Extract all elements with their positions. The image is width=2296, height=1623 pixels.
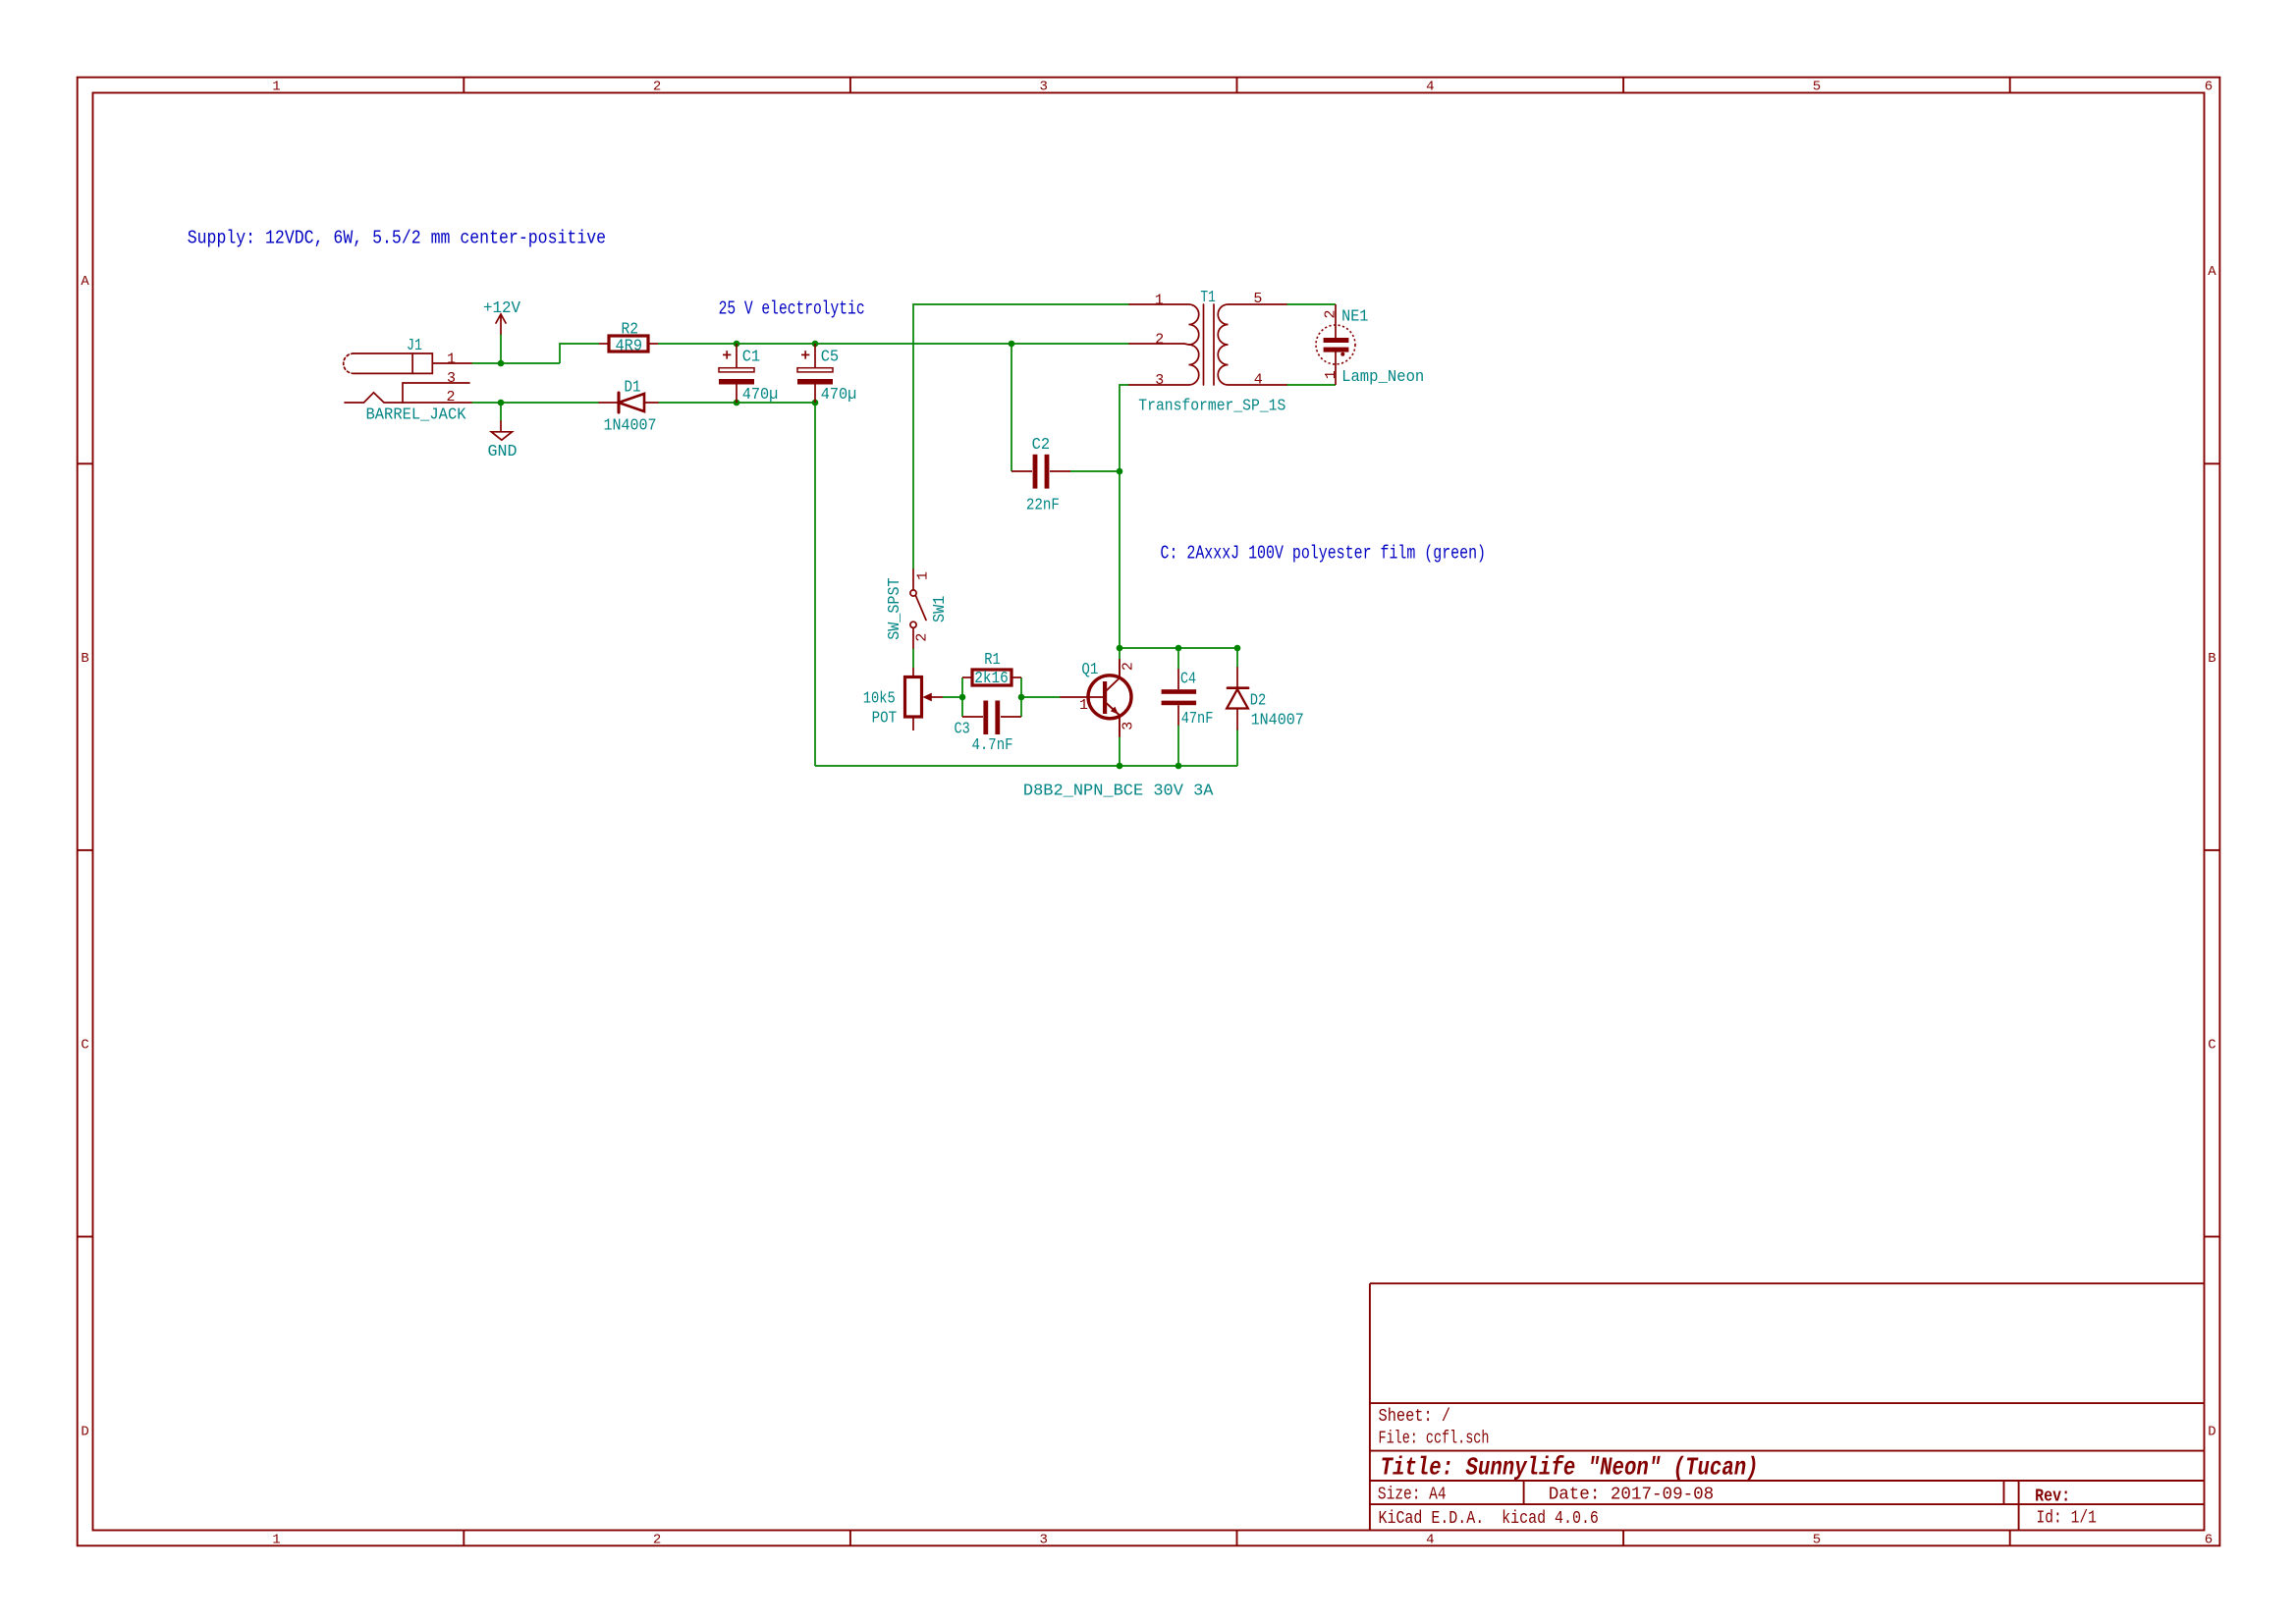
transformer T1 [1129,304,1286,385]
svg-text:D8B2_NPN_BCE 30V 3A: D8B2_NPN_BCE 30V 3A [1023,783,1214,801]
svg-text:Lamp_Neon: Lamp_Neon [1341,368,1424,387]
svg-text:22nF: 22nF [1026,497,1060,515]
wire T1 pin1 to switch column [913,304,1129,569]
svg-text:1: 1 [915,571,932,580]
wire C4 top [1177,648,1179,669]
wire R1C3 left leads [961,677,963,717]
wire T1 pin4 to lamp [1286,384,1336,386]
wire R1C3 right leads [1020,677,1022,717]
diode D1 [599,393,658,412]
svg-text:A: A [81,274,89,290]
svg-text:+12V: +12V [483,299,521,318]
junction C2 right [1117,468,1123,475]
svg-text:1N4007: 1N4007 [1251,712,1304,730]
svg-text:B: B [2208,651,2215,667]
svg-text:2: 2 [1155,331,1164,348]
junction base left [959,694,966,701]
svg-text:4: 4 [1426,1532,1434,1547]
svg-text:C1: C1 [742,348,761,366]
junction emitter rail [1117,763,1123,770]
junction D2 top node [1234,645,1241,652]
svg-text:C4: C4 [1180,671,1196,689]
svg-text:Title: Sunnylife "Neon" (Tucan: Title: Sunnylife "Neon" (Tucan) [1381,1453,1759,1483]
svg-text:3: 3 [447,370,456,387]
svg-text:D: D [81,1424,88,1439]
wire D2 top [1236,648,1238,668]
svg-text:3: 3 [1039,80,1047,95]
svg-text:C2: C2 [1032,436,1051,455]
WIRES [471,304,1336,766]
wire pot wiper to R1 node [943,696,962,698]
capacitor C3 [962,701,1021,735]
capacitor C5 [797,344,833,403]
svg-text:File: ccfl.sch: File: ccfl.sch [1379,1430,1490,1449]
svg-text:2k16: 2k16 [974,670,1009,688]
svg-text:25 V electrolytic: 25 V electrolytic [719,298,865,319]
svg-text:470µ: 470µ [821,386,857,405]
wire T1 pin3 stub [1120,385,1129,648]
svg-text:Date: 2017-09-08: Date: 2017-09-08 [1549,1485,1715,1504]
svg-text:4: 4 [1426,80,1434,95]
capacitor C2 [1011,455,1070,489]
wire collector node across to D2 [1120,647,1237,649]
svg-text:KiCad E.D.A. kicad 4.0.6: KiCad E.D.A. kicad 4.0.6 [1379,1509,1599,1529]
svg-text:C: 2AxxxJ 100V polyester film: C: 2AxxxJ 100V polyester film (green) [1161,543,1487,565]
barrel jack J1 [344,353,471,403]
junction +12V node [498,360,505,367]
svg-text:4R9: 4R9 [616,338,643,356]
junction GND node [498,400,505,406]
junction base right [1018,694,1025,701]
wire R2 out to T1 pin2 [658,343,1129,345]
capacitor C4 [1162,669,1197,726]
svg-text:47nF: 47nF [1181,710,1214,729]
svg-text:NE1: NE1 [1341,308,1368,327]
wire J1 pin1 to +12V node [471,362,560,364]
diode D2 [1227,668,1248,730]
wire collector drop [1119,648,1121,660]
wire +12V stub [500,334,502,363]
junction dots [498,341,1241,770]
svg-text:3: 3 [1155,372,1164,389]
svg-text:3: 3 [1039,1532,1047,1547]
svg-text:C3: C3 [955,721,970,739]
wire C2 branch down [1011,344,1012,471]
capacitor C1 [719,344,754,403]
wire switch to pot [912,648,914,668]
svg-text:6: 6 [2205,1532,2213,1547]
wire D2 bottom to rail [1236,730,1238,767]
svg-text:BARREL_JACK: BARREL_JACK [366,406,467,425]
svg-text:Sheet: /: Sheet: / [1379,1407,1451,1427]
svg-text:R1: R1 [984,651,1001,670]
svg-text:1N4007: 1N4007 [604,417,657,436]
svg-text:1: 1 [1079,697,1088,714]
svg-text:10k5: 10k5 [863,689,896,708]
svg-text:1: 1 [1155,293,1164,309]
power +12V [496,314,506,334]
svg-text:Supply: 12VDC, 6W, 5.5/2 mm ce: Supply: 12VDC, 6W, 5.5/2 mm center-posit… [188,228,606,249]
svg-text:SW_SPST: SW_SPST [886,577,904,639]
svg-text:1: 1 [272,80,280,95]
svg-text:2: 2 [1121,662,1137,671]
resistor R1 [962,670,1021,685]
wire jog up to R2 level [560,344,599,363]
junction C1 bottom [734,400,740,406]
junction collector [1117,645,1123,652]
junction C2 top [1009,341,1015,348]
wire D1 to C1 C5 bottoms [658,402,815,404]
neon lamp NE1 [1316,304,1355,385]
svg-text:C5: C5 [821,348,840,366]
svg-text:1: 1 [447,351,456,367]
junction C4 top node [1175,645,1182,652]
svg-text:SW1: SW1 [931,596,950,622]
svg-text:Q1: Q1 [1081,661,1098,679]
svg-text:A: A [2208,264,2216,280]
svg-text:Id: 1/1: Id: 1/1 [2037,1508,2097,1528]
wire C5 bottom down left rail [814,403,816,766]
junction C4 rail [1175,763,1182,770]
svg-text:Size: A4: Size: A4 [1378,1485,1447,1504]
resistor R2 [599,336,658,352]
wire J1 pin2 to D1 [471,402,599,404]
svg-text:4.7nF: 4.7nF [972,736,1013,755]
svg-text:2: 2 [447,389,456,406]
svg-text:J1: J1 [407,337,422,355]
svg-text:D: D [2208,1424,2215,1439]
svg-text:C: C [2208,1038,2215,1054]
svg-text:2: 2 [653,80,661,95]
svg-text:Transformer_SP_1S: Transformer_SP_1S [1138,398,1285,416]
svg-text:2: 2 [1323,309,1339,318]
switch SW1 [910,569,926,648]
svg-text:1: 1 [272,1532,280,1547]
wire base node to Q1 [1021,696,1061,698]
svg-text:B: B [81,651,88,667]
svg-text:5: 5 [1813,80,1821,95]
svg-text:POT: POT [872,710,898,729]
wire GND stub [500,403,502,421]
wire emitter to rail [1119,736,1121,766]
wire C4 bottom [1177,726,1179,766]
wire bottom rail [815,765,1237,767]
junction C1 top [734,341,740,348]
potentiometer RV 10k5 [905,668,944,730]
svg-text:GND: GND [488,443,518,461]
ground GND [491,421,512,440]
wire T1 pin5 to lamp [1286,303,1336,305]
svg-text:5: 5 [1813,1532,1821,1547]
transistor Q1 [1061,660,1131,736]
svg-text:3: 3 [1121,722,1137,730]
svg-text:D2: D2 [1250,692,1267,711]
svg-text:1: 1 [1323,370,1339,379]
svg-text:2: 2 [653,1532,661,1547]
junction C5 bottom [812,400,819,406]
svg-text:470µ: 470µ [742,386,779,405]
junction C5 top [812,341,819,348]
wire C2 right to vertical [1070,470,1120,472]
svg-text:T1: T1 [1200,289,1216,307]
TITLE BLOCK [1370,1283,2205,1530]
svg-text:5: 5 [1253,291,1262,307]
svg-text:2: 2 [913,633,930,642]
svg-text:Rev:: Rev: [2035,1487,2070,1506]
svg-text:C: C [81,1038,88,1054]
svg-text:4: 4 [1254,371,1263,388]
svg-text:D1: D1 [625,379,641,398]
svg-text:6: 6 [2205,80,2213,95]
